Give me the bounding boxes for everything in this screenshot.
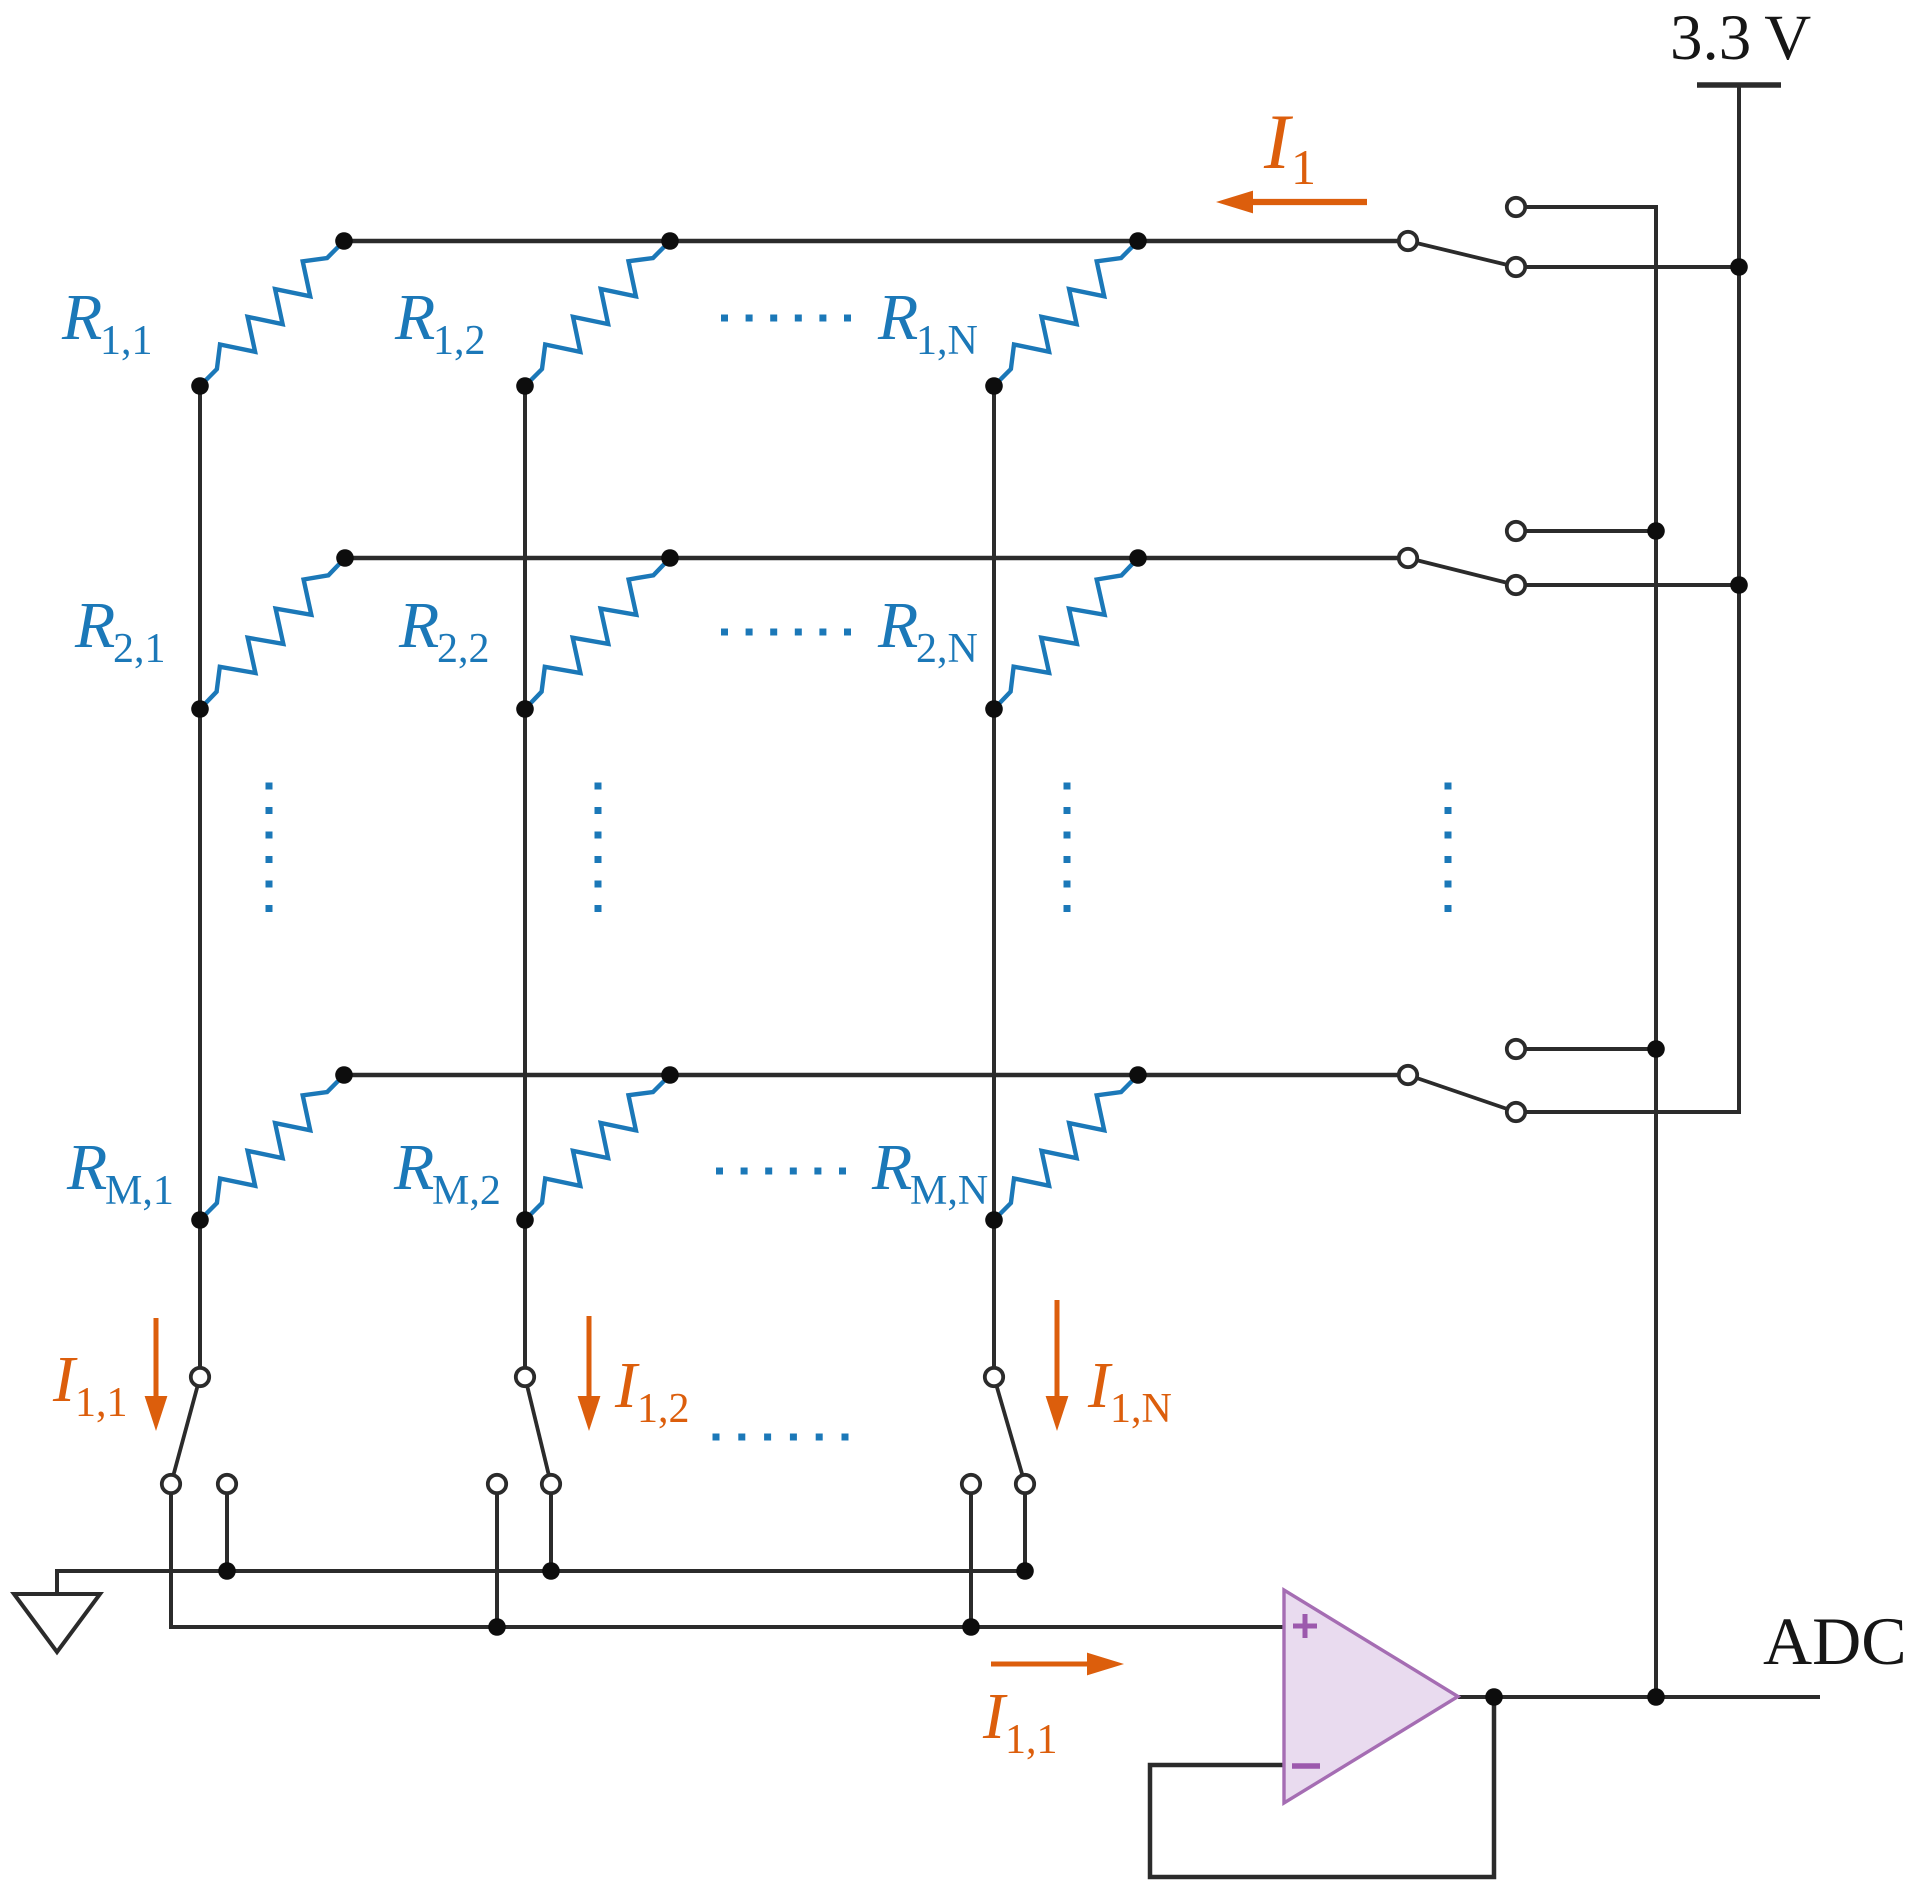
svg-text:1,2: 1,2 bbox=[637, 1386, 690, 1432]
svg-text:3.3 V: 3.3 V bbox=[1670, 2, 1811, 74]
svg-text:R: R bbox=[394, 281, 435, 354]
svg-text:1,1: 1,1 bbox=[75, 1380, 128, 1426]
svg-text:R: R bbox=[871, 1131, 912, 1204]
svg-text:1,N: 1,N bbox=[1110, 1386, 1172, 1432]
svg-text:R: R bbox=[393, 1131, 434, 1204]
svg-text:R: R bbox=[877, 589, 918, 662]
svg-text:1,1: 1,1 bbox=[100, 318, 153, 364]
svg-text:M,1: M,1 bbox=[105, 1168, 174, 1214]
svg-text:2,1: 2,1 bbox=[113, 626, 166, 672]
svg-text:1,1: 1,1 bbox=[1005, 1717, 1058, 1763]
svg-text:2,N: 2,N bbox=[916, 626, 978, 672]
svg-text:I: I bbox=[1263, 98, 1294, 185]
svg-text:R: R bbox=[61, 281, 102, 354]
svg-text:1: 1 bbox=[1291, 139, 1316, 195]
svg-text:ADC: ADC bbox=[1763, 1603, 1907, 1679]
svg-text:M,N: M,N bbox=[910, 1168, 988, 1214]
svg-text:R: R bbox=[74, 589, 115, 662]
svg-text:R: R bbox=[66, 1131, 107, 1204]
svg-text:M,2: M,2 bbox=[432, 1168, 501, 1214]
svg-text:R: R bbox=[877, 281, 918, 354]
svg-text:1,2: 1,2 bbox=[433, 318, 486, 364]
svg-text:2,2: 2,2 bbox=[437, 626, 490, 672]
svg-text:1,N: 1,N bbox=[916, 318, 978, 364]
svg-text:R: R bbox=[398, 589, 439, 662]
